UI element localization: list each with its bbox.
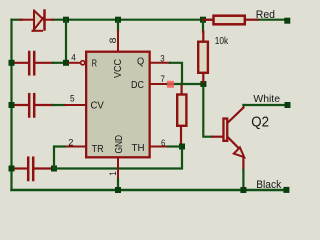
svg-text:Red: Red [256, 9, 275, 21]
transistor Q2 base lead [213, 136, 223, 138]
transistor Q2 emitter [228, 138, 239, 149]
svg-text:VCC: VCC [112, 59, 124, 78]
node: junction (66,62.8) [63, 60, 69, 66]
pin number labels [68, 37, 165, 175]
marker: pink highlight square on pin 7 [167, 81, 174, 88]
wire: vertical from top rail to R pin row [65, 20, 67, 63]
wire: Q elbow down to DC row [170, 63, 182, 82]
IC U1 555 body [86, 52, 149, 158]
svg-text:Black: Black [256, 179, 281, 191]
pin 1 GND red lead [117, 158, 119, 179]
transistor Q2 collector [228, 105, 243, 122]
wire: 10k node down to transistor base [203, 87, 212, 137]
wire: top rail left segment [12, 19, 23, 21]
wire: emitter green to bottom rail [242, 170, 244, 190]
svg-text:8: 8 [107, 37, 118, 43]
wire: TH to junction [168, 145, 180, 147]
capacitor C1 row y=62.8 [14, 52, 53, 74]
pin 4 inversion bubble [81, 61, 85, 65]
pin 7 DC lead [150, 83, 167, 85]
svg-text:R: R [92, 58, 98, 70]
pin 3 Q lead [150, 62, 170, 64]
pin 8 VCC red lead [117, 31, 119, 51]
svg-text:10k: 10k [215, 36, 229, 47]
diode D1 [34, 11, 43, 29]
wire: pin1 green to bottom rail [117, 179, 119, 190]
wire: bottom rail [12, 189, 286, 191]
resistor R1 horizontal top right [203, 16, 258, 25]
net labels [253, 9, 281, 191]
node: junction C3-TR (54,168.5) [51, 166, 57, 172]
pin 2 TR lead [65, 146, 86, 148]
node: junction rail-C1 [9, 60, 15, 66]
wire: left vertical rail [10, 20, 12, 190]
node: junction pin1-bottom rail [115, 187, 121, 193]
svg-text:1: 1 [107, 171, 118, 176]
node: junction emitter-bottom rail [240, 187, 246, 193]
node: junction (182,146.5) [179, 144, 185, 150]
svg-text:5: 5 [70, 92, 75, 103]
transistor Q2 base bar [223, 119, 227, 141]
svg-text:DC: DC [131, 79, 144, 91]
wire: C2 to CV pin [53, 104, 65, 106]
wire: bottom net TR/TH y=168.5 up to TH junction [54, 148, 182, 169]
wire: top rail middle segment [52, 19, 212, 21]
svg-text:GND: GND [113, 135, 125, 154]
emitter arrowhead [234, 147, 244, 157]
node: junction rail-C3 [9, 166, 15, 172]
wire: C1 to junction (66,62.8) [53, 62, 63, 64]
capacitor C2 row y=105 [14, 94, 53, 116]
pin 4 R lead [69, 62, 80, 64]
capacitor C3 row y=168.5 [14, 158, 51, 180]
node: junction (204,84) [200, 81, 206, 87]
wire: pin8 green stub [117, 20, 119, 31]
emitter red lead down [242, 157, 244, 170]
svg-text:6: 6 [161, 137, 165, 148]
svg-text:Q2: Q2 [251, 114, 269, 131]
svg-text:TR: TR [92, 143, 104, 155]
terminal Black [283, 187, 289, 193]
svg-text:Q: Q [137, 56, 144, 68]
node: junction VCC pin 8 top (118,20) [115, 17, 121, 23]
wire: TR elbow down to C3 row [54, 147, 65, 169]
wire: collector to White terminal [244, 104, 286, 106]
node: junction 10k top (203,20) [200, 17, 206, 23]
wire: 10k top green stub [202, 20, 204, 32]
terminal White [285, 102, 291, 108]
node: junction diode-R wire (66,20) [63, 17, 69, 23]
resistor R2 10k vertical [198, 32, 208, 83]
resistor R3 vertical below DC node [177, 86, 186, 147]
svg-text:2: 2 [68, 136, 73, 147]
svg-text:3: 3 [160, 52, 164, 63]
node: junction rail-C2 [9, 102, 15, 108]
pin 6 TH lead [150, 146, 168, 148]
svg-text:CV: CV [91, 100, 104, 112]
svg-text:4: 4 [71, 51, 76, 62]
terminal Red [284, 18, 290, 24]
IC pin name labels [91, 56, 145, 156]
pin 5 CV lead [65, 104, 85, 106]
wire: top rail right segment to Red terminal [257, 19, 285, 21]
wire: DC row to 10k junction [167, 83, 203, 85]
svg-text:TH: TH [132, 142, 145, 154]
svg-text:7: 7 [160, 73, 165, 84]
svg-text:White: White [253, 94, 280, 105]
